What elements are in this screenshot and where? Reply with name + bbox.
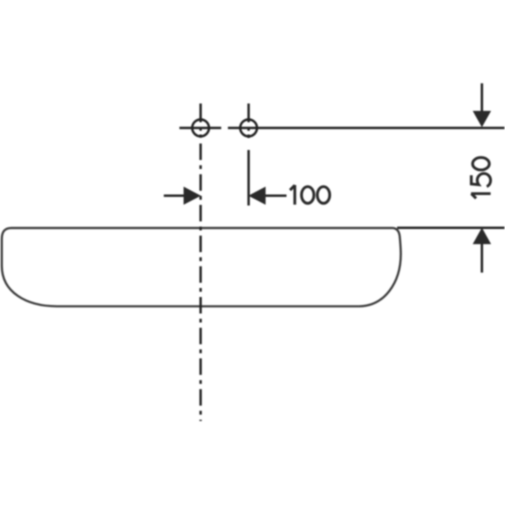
right hole extension line down <box>247 150 249 206</box>
digit 0 <box>302 187 314 204</box>
hole circle left <box>192 120 209 137</box>
dim 150 vertical line top <box>481 83 483 112</box>
hole circle right <box>240 120 257 137</box>
right hole vertical through circle <box>247 104 249 139</box>
centerline vertical left solid part through circle <box>199 104 201 138</box>
label 150 rotated <box>471 158 491 199</box>
dim 150 arrowhead pointing up <box>473 228 491 245</box>
digit 0 <box>473 158 490 170</box>
dim 150 vertical line bottom <box>481 244 483 273</box>
hole axis horizontal line left segment <box>179 127 221 129</box>
dimension line horizontal through right circle <box>228 127 505 129</box>
label 100 <box>290 185 330 205</box>
digit 5 <box>471 174 490 187</box>
dim 100 left arrow tail <box>164 194 185 196</box>
dim 100 arrowhead pointing left <box>248 187 265 205</box>
centerline vertical left dash-dot <box>199 144 201 422</box>
digit 1 <box>290 185 295 205</box>
dim 100 right arrow tail <box>265 194 287 196</box>
shelf outline <box>2 228 401 306</box>
shelf top extension line right <box>397 227 504 229</box>
digit 0 <box>317 187 329 204</box>
digit 1 <box>471 194 491 199</box>
dim 100 arrowhead pointing right <box>184 187 201 205</box>
dim 150 arrowhead pointing down <box>473 111 491 127</box>
